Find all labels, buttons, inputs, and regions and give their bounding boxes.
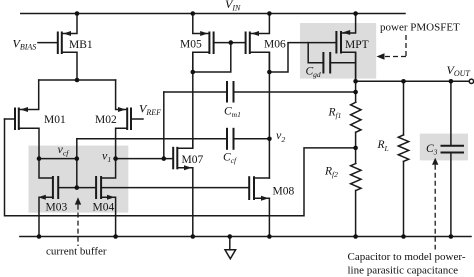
svg-text:Cm1: Cm1 [224,106,241,120]
svg-text:Capacitor to model power-: Capacitor to model power- [348,251,466,263]
svg-text:M05: M05 [180,39,202,51]
svg-text:VIN: VIN [225,0,241,12]
svg-text:M04: M04 [93,202,115,214]
svg-text:current buffer: current buffer [46,246,107,258]
svg-text:M08: M08 [273,186,295,198]
svg-text:M02: M02 [95,114,117,126]
svg-text:VREF: VREF [139,102,161,117]
svg-text:v2: v2 [276,128,285,144]
svg-text:Ccf: Ccf [223,151,237,165]
svg-text:M07: M07 [182,154,204,166]
svg-text:MPT: MPT [345,39,369,51]
svg-text:power PMOSFET: power PMOSFET [380,21,460,33]
svg-text:M03: M03 [46,202,68,214]
svg-text:VOUT: VOUT [447,63,471,78]
svg-text:vcf: vcf [58,142,71,158]
svg-text:Rf2: Rf2 [324,166,338,180]
svg-text:RL: RL [377,139,389,153]
svg-text:VBIAS: VBIAS [13,36,37,51]
svg-text:Rf1: Rf1 [328,107,342,121]
svg-text:M06: M06 [264,39,286,51]
svg-text:MB1: MB1 [69,39,93,51]
svg-text:M01: M01 [44,114,66,126]
svg-text:line parasitic capacitance: line parasitic capacitance [348,264,459,276]
